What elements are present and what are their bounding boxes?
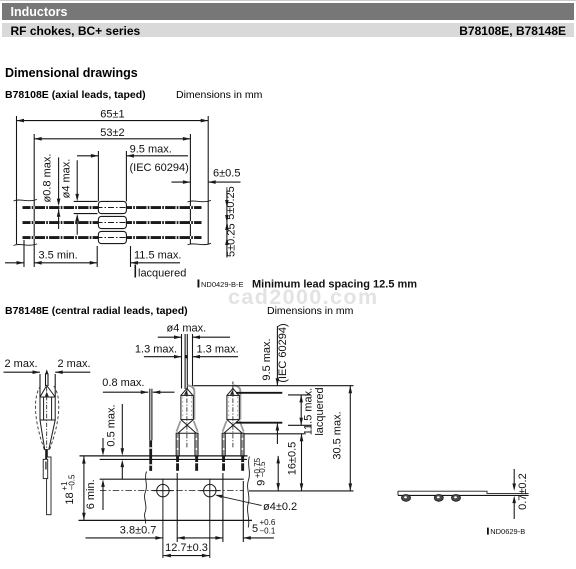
svg-text:2 max.: 2 max. (58, 358, 91, 370)
radial choke component 1 lead wire top (185, 334, 187, 389)
subheader bar RF chokes (2, 23, 574, 38)
tape top edge (80, 455, 248, 457)
taped lead row 2 (23, 221, 202, 224)
svg-text:11.5 max.: 11.5 max. (134, 249, 182, 261)
drawing number IND0429-B-E (198, 280, 244, 290)
extension line lead clamp (3.5 dim) (23, 240, 25, 267)
side-view component wire top (46, 374, 49, 387)
svg-text:ND0629-B: ND0629-B (490, 527, 525, 536)
watermark (228, 285, 378, 310)
extension line lacquer left (11.5 dim) (96, 246, 98, 267)
radial choke component 2 leads in tape (222, 456, 244, 471)
svg-text:ø4 max.: ø4 max. (60, 159, 72, 199)
label lacquered vertical (314, 387, 326, 435)
dimension ø0.8 max (57, 157, 61, 229)
dimension 0.5 max (121, 404, 125, 479)
extension line skirt bottom (16 dim) (244, 433, 305, 435)
dimension 6±0.5 (172, 167, 241, 184)
extension line left tape inner edge (53 dim / 3.5 ext) (33, 134, 35, 267)
svg-text:lacquered: lacquered (138, 267, 186, 279)
tape break wave right top (188, 200, 212, 202)
svg-text:18: 18 (64, 492, 76, 504)
label 1.3 max left (135, 344, 177, 356)
taped lead row 3 (23, 236, 202, 239)
extension line lacquer top thick (236, 392, 282, 394)
svg-text:−0.5: −0.5 (68, 474, 77, 490)
wire extension line right tape outer edge (65 dim) (207, 116, 209, 244)
label IEC 60294 vertical (277, 323, 289, 382)
radial choke component 1 leads in tape (176, 456, 198, 471)
svg-text:6±0.5: 6±0.5 (213, 167, 240, 179)
label 9 +0.75/-0.5 vertical (253, 457, 268, 486)
cut lead wire between components (149, 389, 152, 471)
header bar Inductors (2, 3, 574, 20)
svg-text:ø4±0.2: ø4±0.2 (263, 501, 297, 513)
svg-text:6 min.: 6 min. (85, 479, 97, 509)
svg-text:(IEC 60294): (IEC 60294) (130, 162, 189, 174)
label 16±0.5 vertical (287, 442, 299, 476)
label 1.3 max right (197, 344, 239, 356)
svg-text:9.5 max.: 9.5 max. (261, 338, 273, 380)
radial choke component 2 lead wire top (232, 382, 234, 389)
extension lines body top/bottom (ø4 dim) (74, 201, 98, 213)
label 0.5 max vertical (105, 404, 117, 446)
svg-text:Minimum lead spacing 12.5 mm: Minimum lead spacing 12.5 mm (252, 279, 417, 291)
choke body row 1 (97, 201, 129, 213)
adhesive tape bottom line (100, 478, 244, 480)
label ø4 max (60, 159, 72, 199)
svg-text:ND0429-B-E: ND0429-B-E (201, 280, 244, 289)
label 11.5 max vertical (302, 388, 314, 436)
svg-text:5: 5 (252, 523, 258, 535)
extension line comp2 lead (5 dim) (222, 473, 224, 542)
label ø4±0.2 with leader (215, 493, 297, 513)
tape cut wave left (144, 472, 146, 524)
radial choke component 1 skirt columns (176, 433, 198, 456)
label 0.7±0.2 vertical (517, 473, 529, 510)
extension lines side body (2 max) (40, 374, 55, 397)
radial choke component 1 crimp cone (181, 388, 193, 395)
svg-text:9: 9 (255, 480, 267, 486)
drawing 1 title (5, 89, 146, 101)
hole centerline dash-dot (100, 490, 244, 492)
label 18 +1/-0.5 vertical (60, 474, 77, 505)
label 30.5 max vertical (331, 411, 343, 459)
dimension 3.8±0.7 and 5 +0.6/-0.1 (86, 536, 274, 540)
dimension 16±0.5 (300, 434, 304, 491)
tape break wave right bottom (188, 243, 212, 245)
extension line tape cut (5 dim) (242, 481, 244, 542)
svg-text:1.3 max.: 1.3 max. (197, 344, 239, 356)
side-view component body (40, 387, 55, 449)
svg-text:5±0.25: 5±0.25 (225, 186, 237, 220)
label 6 min vertical (85, 479, 97, 509)
side-view component lead wire (45, 449, 48, 462)
tape break wave left bottom (14, 244, 38, 246)
radial choke component 2 crimp cone (227, 388, 239, 395)
extension line 11.5 top (288, 394, 311, 396)
dimension 18 +1/-0.5 (82, 456, 86, 520)
dimension ø4 max (75, 160, 79, 235)
dimension 53±2 (34, 127, 190, 141)
drawing 2 title (5, 305, 188, 317)
extension line lacquer right (11.5 dim) (130, 246, 132, 267)
dimension 9 +0.75/-0.5 (276, 456, 280, 491)
label 5±0.25 lower (225, 223, 237, 257)
dimension 9.5 max IEC (vertical) (276, 326, 280, 444)
svg-text:0.8 max.: 0.8 max. (102, 377, 144, 389)
tape edge-view bar (398, 491, 529, 495)
tape edge-view component bumps (402, 495, 461, 502)
dimension 9.5 max (IEC 60294) (77, 144, 189, 174)
extension line lacquer bottom thick (236, 422, 282, 424)
svg-text:−0.1: −0.1 (260, 526, 276, 535)
drawing 1 units note (176, 89, 262, 101)
svg-text:3.5 min.: 3.5 min. (39, 249, 78, 261)
drawing number IND0629-B (487, 527, 525, 536)
svg-text:0.7±0.2: 0.7±0.2 (517, 473, 529, 510)
adhesive tape top line (100, 458, 247, 460)
label ø0.8 max (42, 154, 54, 203)
svg-text:16±0.5: 16±0.5 (287, 442, 299, 476)
hole centerline extension right (249, 490, 354, 492)
tape break wave left top (14, 199, 38, 201)
svg-text:−0.5: −0.5 (258, 461, 267, 477)
label ø4 max top (167, 322, 207, 334)
extension line component top (193, 385, 353, 387)
svg-text:9.5 max.: 9.5 max. (130, 144, 172, 156)
svg-text:65±1: 65±1 (100, 109, 124, 121)
svg-text:3.8±0.7: 3.8±0.7 (120, 525, 157, 537)
section heading (5, 66, 138, 80)
svg-text:11.5 max.: 11.5 max. (302, 388, 314, 436)
svg-text:0.5 max.: 0.5 max. (105, 404, 117, 446)
svg-text:53±2: 53±2 (100, 127, 124, 139)
extension line 11.5 bottom (288, 424, 311, 426)
dimension 0.7±0.2 (512, 469, 516, 519)
choke body row 2 (97, 216, 129, 228)
dimension 0.8 max arrows (103, 390, 175, 394)
label 0.8 max (102, 377, 144, 389)
label 3.8±0.7 (120, 525, 157, 537)
radial choke component 2 skirt columns (222, 433, 244, 456)
taped lead row 1 (23, 206, 202, 209)
choke body row 3 (97, 231, 129, 243)
svg-text:ø0.8 max.: ø0.8 max. (42, 154, 54, 203)
extension line body left (9.5 dim) (97, 151, 99, 201)
svg-text:30.5 max.: 30.5 max. (331, 411, 343, 459)
sprocket hole 2 (199, 479, 220, 558)
label 5 +0.6/-0.1 (252, 518, 276, 535)
dimension 65±1 (17, 109, 209, 123)
side-view component taper (40, 420, 55, 450)
dimension 6 min (101, 438, 105, 510)
svg-text:1.3 max.: 1.3 max. (135, 344, 177, 356)
svg-text:2 max.: 2 max. (5, 358, 38, 370)
dimension 12.7±0.3 (163, 542, 209, 558)
dimension 5±0.25 vertical chain (225, 191, 229, 258)
page top border line (0, 0, 576, 1)
dimension 30.5 max (349, 386, 353, 491)
dimension 2 max / 2 max (4, 369, 91, 374)
svg-text:lacquered: lacquered (314, 387, 326, 435)
svg-text:(IEC 60294): (IEC 60294) (277, 323, 289, 382)
label 5±0.25 upper (225, 186, 237, 220)
label 2 max left (5, 358, 38, 370)
label 3.5 min (39, 249, 78, 261)
dimension 11.5 max lacquered (299, 395, 303, 425)
svg-text:12.7±0.3: 12.7±0.3 (165, 542, 208, 554)
sprocket hole 1 (153, 479, 174, 558)
label 11.5 max (134, 249, 182, 261)
side-view component crimp cone (40, 386, 55, 398)
tape cut wave right (247, 457, 249, 528)
dimension ø4 max (front component) (158, 335, 230, 339)
extension lines ø4 body (front) (182, 334, 193, 389)
note minimum lead spacing (252, 279, 417, 291)
radial choke component 2 body (227, 390, 239, 450)
radial choke component 2 lacquer shading (223, 385, 244, 431)
svg-text:ø4 max.: ø4 max. (167, 322, 207, 334)
radial choke component 2 waist crossover (222, 420, 244, 434)
label 2 max right (58, 358, 91, 370)
label lacquered with leader (135, 265, 186, 280)
radial choke component 1 waist crossover (176, 420, 198, 434)
dimension 1.3 max / 1.3 max (144, 355, 238, 359)
svg-text:5±0.25: 5±0.25 (225, 223, 237, 257)
side-view component lacquer outline dashed (35, 386, 58, 450)
extension line body right (9.5 dim) (125, 151, 127, 201)
extension line right tape inner edge (53 dim) (189, 134, 191, 244)
extension line comp1 lead (3.8 dim) (176, 473, 178, 542)
dimension 3.5 min / 11.5 max shared line (5, 261, 180, 265)
label 9.5 max vertical (261, 338, 273, 380)
radial choke component 1 lacquer shading (177, 385, 198, 431)
radial choke component 1 body (181, 390, 193, 450)
drawing 2 units note (267, 305, 353, 317)
wire extension line left tape outer edge (65 dim) (16, 116, 18, 244)
side-view tape clamp rectangles (43, 457, 51, 515)
tape bottom edge (79, 519, 253, 521)
